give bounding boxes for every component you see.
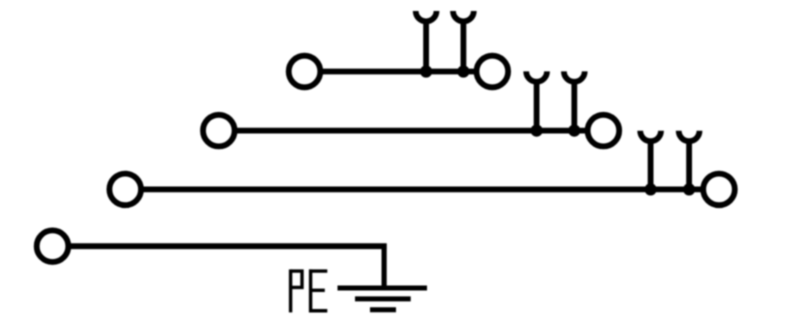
wire level-1 bus	[323, 69, 475, 75]
clamp stem K3b	[686, 140, 692, 190]
terminal circle X7 PE level left	[37, 230, 69, 262]
clamp stem K3a	[648, 140, 654, 190]
clamp stem K1a	[423, 20, 429, 72]
label PE letter P	[291, 269, 302, 312]
wire PE drop vertical	[382, 244, 387, 289]
clamp arc K3b	[679, 131, 700, 141]
ground bar top	[338, 286, 428, 291]
junction dot level-3 b	[683, 183, 695, 195]
terminal circle X2 level-1 right	[477, 56, 509, 88]
terminal circle X6 level-3 right	[703, 174, 735, 206]
terminal circle X3 level-2 left	[203, 115, 235, 147]
junction dot level-3 a	[645, 183, 657, 195]
clamp arc K2b	[564, 71, 585, 81]
ground bar bottom	[370, 307, 396, 312]
junction dot level-2 a	[531, 125, 543, 137]
junction dot level-1 b	[457, 65, 469, 77]
junction dot level-1 a	[420, 65, 432, 77]
label PE letter E	[309, 269, 327, 312]
clamp arc K3a	[640, 131, 661, 141]
clamp stem K2b	[571, 80, 577, 130]
clamp arc K1a	[416, 11, 437, 21]
clamp stem K1b	[460, 20, 466, 72]
clamp stem K2a	[534, 80, 540, 130]
wire level-3 bus	[143, 186, 701, 192]
terminal circle X1 level-1 left	[289, 56, 321, 88]
terminal circle X4 level-2 right	[588, 115, 620, 147]
wire PE level horizontal	[71, 243, 387, 249]
clamp arc K1b	[453, 11, 474, 21]
clamp arc K2a	[526, 71, 547, 81]
terminal circle X5 level-3 left	[109, 174, 141, 206]
wire level-2 bus	[237, 128, 586, 134]
ground bar middle	[355, 296, 411, 301]
junction dot level-2 b	[568, 125, 580, 137]
